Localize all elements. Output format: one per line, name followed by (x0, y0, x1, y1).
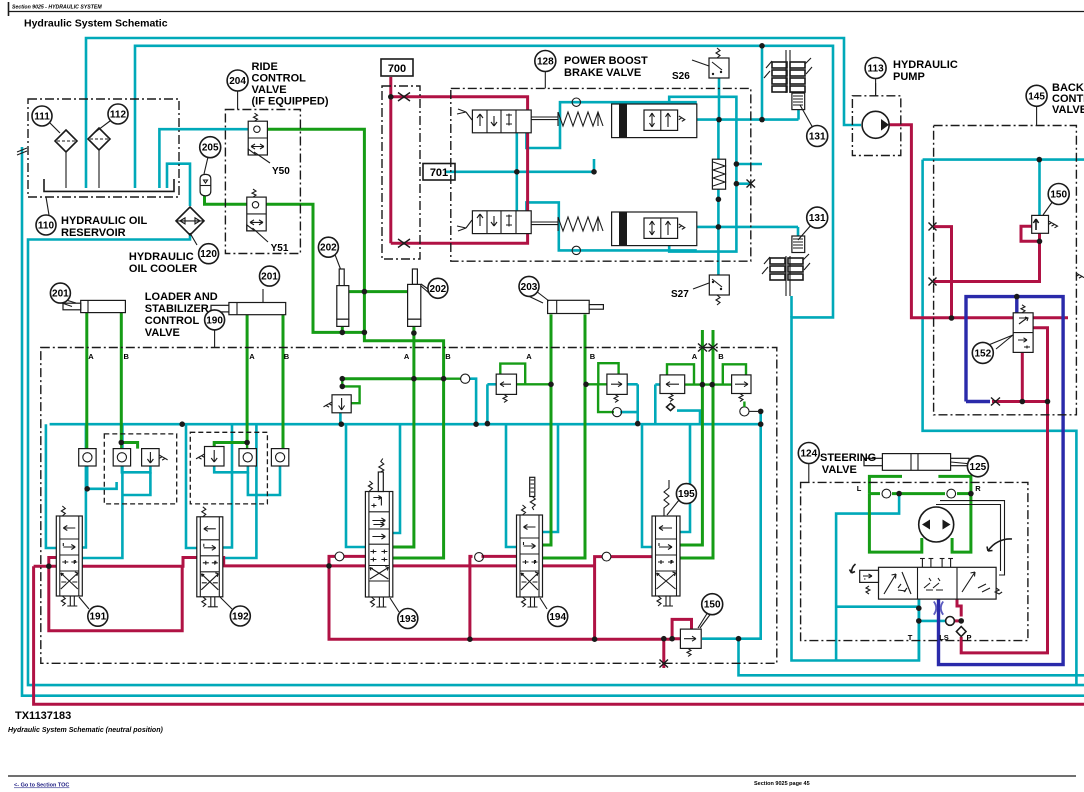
svg-text:B: B (718, 352, 724, 361)
svg-text:B: B (590, 352, 596, 361)
wire brake upper pilot return (526, 102, 696, 148)
svg-text:B: B (445, 352, 451, 361)
reservoir box (28, 99, 179, 197)
svg-text:Section 9025 - HYDRAULIC SYSTE: Section 9025 - HYDRAULIC SYSTEM (12, 5, 102, 11)
svg-text:A: A (692, 352, 698, 361)
wire 201C A-line (214, 313, 247, 447)
steering cylinder 125 (864, 454, 972, 471)
check valves 192 section (196, 447, 289, 467)
svg-text:(IF EQUIPPED): (IF EQUIPPED) (252, 96, 329, 108)
wire steering P feed (961, 402, 1047, 653)
wire 203 B relief links (585, 383, 607, 385)
svg-text:HYDRAULIC: HYDRAULIC (893, 59, 958, 71)
svg-text:RIDE: RIDE (252, 61, 278, 73)
svg-text:152: 152 (974, 348, 991, 359)
svg-text:RESERVOIR: RESERVOIR (61, 227, 126, 239)
steering port symbols (882, 489, 966, 636)
svg-text:VALVE: VALVE (822, 464, 857, 476)
wire accumulator to Y51 (205, 196, 247, 204)
svg-text:A: A (249, 352, 255, 361)
stab relief valve (324, 374, 470, 413)
steering 124 box (801, 482, 1028, 640)
spool valve 194 (517, 477, 543, 607)
wire 203 A-line (543, 314, 551, 545)
loader 190 box (41, 348, 777, 664)
wire steering motor right (952, 494, 971, 552)
svg-text:TX1137183: TX1137183 (15, 710, 71, 722)
svg-text:205: 205 (202, 143, 219, 154)
brake lower booster (612, 212, 697, 246)
brake lower check (572, 246, 580, 254)
orifice stack 131 upper (764, 50, 813, 128)
svg-text:B: B (284, 352, 290, 361)
wire 152 pilot top (1015, 297, 1018, 313)
svg-text:145: 145 (1028, 91, 1045, 102)
wire steering T check stub (919, 620, 946, 623)
big texts (61, 55, 1084, 476)
wire under loop 193-150b (329, 566, 680, 639)
svg-text:Hydraulic System Schematic (ne: Hydraulic System Schematic (neutral posi… (8, 727, 163, 734)
brake upper check (572, 98, 580, 106)
wire steering cyl R (938, 476, 971, 493)
svg-text:125: 125 (970, 462, 987, 473)
spool 191 cyan (46, 424, 56, 548)
svg-text:A: A (404, 352, 410, 361)
wire 192 out (223, 558, 595, 566)
switch S27 (693, 275, 729, 305)
svg-text:128: 128 (537, 57, 554, 68)
spool 193 cyan (346, 424, 365, 547)
svg-text:150: 150 (1050, 190, 1067, 201)
pump box (852, 96, 900, 156)
wire 700 loop brake supply (389, 77, 392, 97)
pipe break mark (17, 148, 27, 155)
wire 203 A relief links (517, 383, 552, 385)
spool valve 192 (197, 507, 223, 607)
wire brake X stub (736, 182, 750, 185)
FOOTER (8, 710, 1076, 789)
wire 193 feed (329, 556, 335, 566)
svg-text:STEERING: STEERING (820, 452, 876, 464)
brake upper spool (457, 109, 603, 133)
wire 150a loop (1021, 226, 1040, 241)
brake lower spool (457, 211, 603, 234)
wire 201C B-line (282, 313, 285, 449)
svg-text:CONTROL: CONTROL (145, 315, 200, 327)
wire 131 lower to long return (790, 296, 793, 317)
wire brake branch from top return (761, 46, 764, 120)
wire 150a drop (1038, 160, 1041, 218)
svg-text:L: L (857, 484, 862, 493)
brake metering spring element (712, 159, 725, 189)
svg-text:HYDRAULIC OIL: HYDRAULIC OIL (61, 215, 147, 227)
wire 152 lower manifold (992, 400, 1048, 403)
svg-text:CONTROL: CONTROL (252, 73, 307, 85)
svg-text:Section 9025 page 45: Section 9025 page 45 (754, 781, 810, 787)
wire 145 area LS return (923, 160, 1077, 686)
wire left 202 cylinder bottom (341, 326, 344, 332)
wire brake metering column (717, 120, 720, 160)
svg-text:201: 201 (52, 289, 69, 300)
backhoe edge spring fragment (1076, 273, 1084, 278)
solenoid valve Y50 (248, 113, 270, 163)
accumulator 205 (200, 174, 211, 195)
svg-text:131: 131 (809, 132, 826, 143)
wire 701 line (446, 171, 594, 174)
wire steering LR line (869, 492, 880, 495)
wire stab manifold (342, 377, 443, 380)
svg-text:STABILIZER: STABILIZER (145, 303, 209, 315)
wire steering L return (836, 494, 899, 661)
svg-text:202: 202 (320, 243, 337, 254)
wire reservoir left return (22, 147, 1084, 696)
wire 194 feed (470, 556, 473, 639)
svg-text:HYDRAULIC: HYDRAULIC (129, 251, 194, 263)
orifice stack 131 lower (762, 224, 812, 296)
cylinder 201 center (211, 289, 286, 315)
svg-text:124: 124 (800, 449, 817, 460)
wire steering cyl L (869, 476, 902, 493)
port letters (88, 352, 981, 642)
cylinder 201 left (60, 300, 125, 312)
svg-text:700: 700 (388, 63, 406, 75)
svg-text:<- Go to Section TOC: <- Go to Section TOC (14, 783, 69, 789)
wire Y51 output to stab cylinders (266, 204, 364, 332)
wire LS crossing stub (966, 400, 990, 403)
wire 201L B-line (121, 313, 137, 449)
svg-text:203: 203 (521, 282, 538, 293)
svg-text:204: 204 (229, 76, 246, 87)
relief 203-A (496, 374, 516, 402)
svg-text:P: P (966, 633, 971, 642)
backhoe 145 box (934, 126, 1077, 415)
wire tank to cooler (167, 164, 190, 206)
wire loader crimson bottom (34, 566, 1084, 704)
svg-text:150: 150 (704, 600, 721, 611)
svg-text:VALVE: VALVE (252, 84, 287, 96)
svg-text:193: 193 (399, 614, 416, 625)
svg-text:BRAKE VALVE: BRAKE VALVE (564, 67, 641, 79)
svg-text:Hydraulic System Schematic: Hydraulic System Schematic (24, 18, 168, 30)
svg-text:A: A (88, 352, 94, 361)
wire Y50 output to stab B (267, 129, 443, 379)
svg-text:R: R (975, 484, 981, 493)
ride control box (225, 110, 300, 254)
svg-text:OIL COOLER: OIL COOLER (129, 263, 197, 275)
wire loader P bus 1 (34, 558, 197, 567)
crimson check balls (335, 552, 344, 561)
wire 195 B-line (680, 330, 713, 558)
wire stab A from right cylinder (393, 326, 414, 547)
wire brake upper out to 131 (697, 118, 799, 121)
leader lines (46, 197, 49, 215)
steering motor (919, 507, 954, 542)
wire 131 upper to pump line (797, 110, 800, 120)
relief 195-B (732, 375, 761, 416)
wire brake lower pilot return (526, 202, 696, 250)
wire inner top return line (135, 46, 919, 661)
svg-text:PUMP: PUMP (893, 71, 925, 83)
reservoir tank (44, 179, 174, 191)
WIRES-BLUE (939, 297, 1064, 665)
svg-text:131: 131 (809, 213, 826, 224)
spool valve 193 (365, 459, 392, 608)
wire steering P port (957, 599, 961, 616)
spool 192 cyan (186, 424, 197, 548)
wire stab relief to bus (339, 413, 342, 424)
check cluster dashed box 192 (190, 432, 267, 504)
svg-text:T: T (908, 633, 913, 642)
hydraulic oil cooler 120 (176, 207, 204, 235)
svg-text:195: 195 (678, 489, 695, 500)
boxed labels (381, 59, 455, 180)
svg-text:111: 111 (34, 112, 50, 123)
svg-text:LS: LS (939, 633, 949, 642)
wire 152 right branch (1033, 328, 1047, 402)
wire steering T port (917, 599, 920, 661)
relief valve 150a (1032, 201, 1058, 233)
spool 195 cyan (642, 424, 652, 547)
wire brake right branch (736, 163, 762, 166)
svg-text:VALVE: VALVE (1052, 104, 1084, 116)
svg-text:LOADER AND: LOADER AND (145, 291, 218, 303)
svg-text:Y51: Y51 (271, 243, 289, 254)
wire 145 inlet stub (934, 227, 952, 318)
svg-text:VALVE: VALVE (145, 327, 180, 339)
filter 111 (55, 130, 77, 152)
svg-text:201: 201 (261, 272, 278, 283)
wire 145 to 150a (934, 241, 1040, 281)
svg-text:112: 112 (110, 110, 127, 121)
wire brake upper rect (669, 97, 736, 252)
wire stab B to spool193 (393, 379, 444, 558)
WIRES-RED (34, 77, 1084, 704)
svg-text:B: B (123, 352, 129, 361)
wire 152 bottom (1021, 352, 1024, 401)
wire 203 B-line (543, 314, 585, 558)
wire 150b plug stub (662, 639, 665, 668)
brake valve box (451, 88, 751, 261)
HEADER (8, 2, 1084, 30)
wire return bus drop to valve150b (702, 411, 761, 639)
wire 150b bypass loop (672, 619, 691, 638)
filter 112 (88, 128, 110, 150)
svg-text:194: 194 (549, 612, 566, 623)
wire 152 LS loop (939, 297, 1064, 665)
steering spool (850, 539, 1013, 599)
WIRES-GREEN (87, 129, 971, 558)
spool valve 195 (652, 480, 680, 606)
relief valve 150b (680, 612, 708, 656)
cylinder 203 (536, 291, 603, 314)
BOXES (28, 86, 1076, 663)
wire 201L A-line (85, 313, 88, 449)
wire 195 feed (595, 557, 602, 640)
solenoid valve Y51 (247, 189, 268, 242)
wire loader internal return bus (50, 423, 761, 426)
svg-text:191: 191 (89, 612, 106, 623)
wire S26 stub (718, 77, 721, 120)
wire 150b to right bus (739, 639, 1084, 676)
svg-text:113: 113 (868, 64, 885, 75)
wire steering motor left (869, 494, 921, 552)
check valves 191 section (79, 449, 168, 466)
relief 203-B (607, 374, 627, 417)
700 test box (382, 86, 420, 259)
svg-text:202: 202 (430, 284, 447, 295)
wire 191 under loop (49, 566, 182, 631)
X break marks (398, 93, 1000, 668)
wire 191 feed jog (49, 558, 57, 567)
wire stab relief elbow (342, 379, 359, 404)
svg-text:190: 190 (206, 315, 223, 326)
svg-text:701: 701 (430, 167, 448, 179)
relief 195-A (660, 375, 685, 411)
wire 202 cylinder cross line (349, 290, 408, 293)
svg-text:S27: S27 (671, 289, 689, 300)
svg-text:110: 110 (38, 221, 55, 232)
svg-text:Y50: Y50 (272, 166, 290, 177)
brake upper booster (612, 104, 697, 138)
wire pump outlet (889, 125, 1068, 318)
wire tank suction to pump top line (86, 38, 861, 188)
switch S26 (692, 48, 729, 78)
svg-text:POWER BOOST: POWER BOOST (564, 55, 648, 67)
priority valve 152 (996, 305, 1033, 353)
wire brake lower out to 131 (697, 226, 798, 229)
svg-text:S26: S26 (672, 71, 690, 82)
svg-text:120: 120 (200, 249, 217, 260)
wire 195 A-line (680, 330, 702, 545)
stabilizer cylinders 202 (334, 252, 428, 326)
svg-text:A: A (526, 352, 532, 361)
steering feedback link (936, 501, 1005, 575)
wire tank to Y50 (159, 129, 248, 188)
spool valve 191 (56, 506, 82, 606)
wire 150b outlet return (679, 637, 682, 640)
wire 195 relief links (685, 383, 732, 385)
hydraulic pump 113 (862, 83, 889, 138)
check cluster dashed box 191 (104, 434, 176, 504)
wire 145 top cyan (923, 158, 1084, 161)
svg-text:192: 192 (232, 612, 249, 623)
wire cooler return bottom bus (28, 233, 1084, 685)
spool 194 cyan (486, 384, 489, 423)
circled labels (32, 51, 1069, 629)
